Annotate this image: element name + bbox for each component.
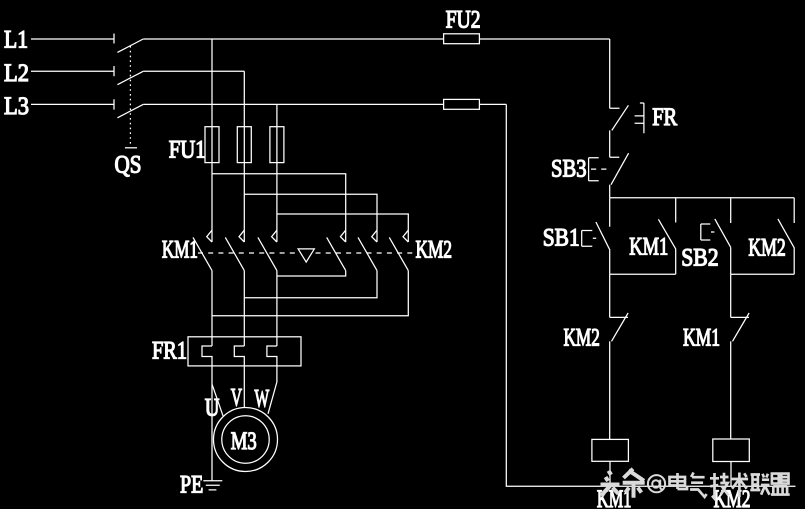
wire left rung down bbox=[609, 274, 611, 317]
fuse FU2 upper bbox=[444, 34, 480, 44]
thermal relay FR1 heater box bbox=[188, 337, 301, 366]
thermal relay FR1 element 1 bbox=[202, 346, 212, 384]
svg-text:KM2: KM2 bbox=[416, 236, 453, 263]
wire SB3 to bus bbox=[609, 185, 611, 198]
wire L2 phase input bbox=[31, 66, 114, 76]
contactor KM1 main contact 1 bbox=[193, 230, 212, 270]
pushbutton SB2 (NO start rev) bbox=[715, 198, 731, 248]
wire PE drop bbox=[211, 384, 213, 481]
wire KM2 pole 2 crossover bbox=[244, 271, 377, 298]
fuse FU1 element 2 bbox=[237, 127, 251, 163]
thermal relay FR contact (NC) bbox=[610, 105, 629, 130]
svg-text:FR1: FR1 bbox=[152, 338, 187, 365]
watermark 头条@电气技术联盟 bbox=[601, 469, 790, 499]
svg-text:L1: L1 bbox=[4, 27, 28, 54]
svg-text:FU1: FU1 bbox=[169, 137, 206, 164]
wire phase B down through FU1 to KM contacts bbox=[243, 71, 245, 242]
svg-text:SB3: SB3 bbox=[551, 155, 587, 182]
wire to KM2 coil bbox=[730, 341, 732, 439]
coil KM1 bbox=[592, 439, 629, 461]
wire L3 phase input bbox=[31, 99, 114, 109]
wire to KM1 coil bbox=[609, 341, 611, 439]
fuse FU1 element 3 bbox=[270, 127, 284, 163]
svg-text:KM1: KM1 bbox=[629, 234, 668, 261]
contactor KM2 main contact 2 bbox=[358, 230, 377, 270]
svg-text:KM2: KM2 bbox=[564, 325, 600, 352]
svg-text:FR: FR bbox=[652, 104, 677, 131]
气 bbox=[690, 473, 707, 498]
svg-text:KM2: KM2 bbox=[714, 486, 751, 509]
switch QS handle bar bbox=[125, 147, 137, 149]
wire KM1 coil to return bbox=[609, 461, 611, 486]
svg-text:KM1: KM1 bbox=[162, 236, 198, 263]
svg-text:KM2: KM2 bbox=[748, 235, 785, 262]
wire L3 to FU2 lower fuse bbox=[143, 103, 506, 105]
wire KM1 pole 3 lower bbox=[276, 271, 278, 346]
wire branch phase B to KM2 pole 2 bbox=[244, 194, 377, 242]
svg-text:V: V bbox=[231, 385, 242, 412]
SB1 actuator bracket bbox=[582, 231, 597, 247]
电 bbox=[670, 473, 688, 489]
control bus wire bbox=[610, 197, 795, 199]
svg-text:PE: PE bbox=[180, 472, 203, 499]
switch QS pole 2 blade bbox=[117, 71, 143, 84]
svg-text:SB2: SB2 bbox=[681, 245, 718, 272]
svg-text:KM1: KM1 bbox=[683, 325, 720, 352]
wire right rail down to FR bbox=[609, 39, 611, 108]
switch QS pole 3 blade bbox=[117, 104, 143, 117]
svg-text:M3: M3 bbox=[231, 428, 257, 455]
wire KM2 pole 3 crossover bbox=[212, 271, 408, 316]
contact KM2 auxiliary (NO seal-in) bbox=[778, 198, 794, 275]
contact KM2 interlock (NC) bbox=[610, 313, 628, 341]
wire branch phase A to KM2 pole 1 bbox=[212, 174, 346, 242]
contactor KM2 main contact 1 bbox=[327, 230, 346, 270]
wire L2 to FU1 branch bbox=[143, 70, 244, 72]
contactor KM1 main contact 3 bbox=[258, 230, 277, 270]
wire SB2 lower bbox=[730, 247, 732, 274]
svg-text:SB1: SB1 bbox=[543, 225, 580, 252]
pushbutton SB3 (NC stop) bbox=[610, 153, 629, 185]
wire branch phase C to KM2 pole 3 bbox=[277, 214, 408, 242]
contact KM1 interlock (NC) bbox=[731, 313, 749, 341]
mechanical linkage dashed line bbox=[198, 252, 414, 254]
wire phase A down through FU1 to KM contacts bbox=[211, 39, 213, 242]
coil KM2 bbox=[713, 439, 750, 462]
FR contact release bracket bbox=[635, 103, 644, 133]
svg-text:U: U bbox=[205, 395, 220, 422]
技 bbox=[710, 473, 729, 499]
switch QS pole 1 blade bbox=[117, 39, 143, 52]
wire W lead into motor bbox=[268, 382, 277, 414]
wire KM2 pole 1 crossover bbox=[277, 271, 346, 276]
wire U lead into motor bbox=[212, 384, 223, 416]
motor M3 outer circle bbox=[214, 408, 278, 472]
fuse FU1 element 1 bbox=[205, 127, 219, 163]
wire KM1 pole 1 lower bbox=[211, 271, 213, 346]
pushbutton SB1 (NO start fwd) bbox=[596, 198, 610, 251]
@ bbox=[648, 475, 665, 492]
svg-text:W: W bbox=[255, 386, 270, 413]
fuse FU2 lower bbox=[444, 99, 480, 109]
SB3 actuator bracket bbox=[589, 158, 607, 181]
盟 bbox=[771, 474, 790, 495]
thermal relay FR1 element 3 bbox=[267, 346, 277, 382]
ground PE symbol bbox=[203, 481, 222, 490]
wire FR to SB3 bbox=[609, 130, 611, 157]
条 bbox=[623, 469, 645, 498]
svg-text:L2: L2 bbox=[4, 60, 29, 87]
wire SB1 lower bbox=[609, 250, 611, 274]
头 bbox=[601, 471, 620, 496]
术 bbox=[731, 473, 748, 498]
wire KM1 pole 2 lower bbox=[243, 271, 245, 346]
wire L1 phase input bbox=[31, 34, 114, 44]
wire parallel join left bbox=[610, 273, 676, 275]
svg-text:FU2: FU2 bbox=[446, 7, 481, 34]
wire KM2 coil to return bbox=[730, 462, 732, 487]
svg-text:QS: QS bbox=[115, 152, 142, 179]
mechanical linkage triangle bbox=[298, 249, 314, 262]
SB2 actuator bracket bbox=[701, 224, 715, 240]
contactor KM2 main contact 3 bbox=[389, 230, 408, 270]
wire right rung down bbox=[730, 274, 732, 317]
thermal relay FR1 element 2 bbox=[234, 346, 244, 408]
wire parallel join right bbox=[731, 273, 795, 275]
wire phase C down through FU1 to KM contacts bbox=[276, 104, 278, 242]
motor M3 inner circle bbox=[222, 416, 269, 463]
wire L1 to FU2 and right rail bbox=[143, 38, 610, 40]
switch QS linkage (dotted) bbox=[129, 46, 131, 144]
联 bbox=[750, 474, 769, 495]
contactor KM1 main contact 2 bbox=[225, 230, 244, 270]
contact KM1 auxiliary (NO seal-in) bbox=[658, 198, 675, 275]
wire control return rail bbox=[506, 104, 795, 486]
svg-text:L3: L3 bbox=[4, 93, 29, 120]
